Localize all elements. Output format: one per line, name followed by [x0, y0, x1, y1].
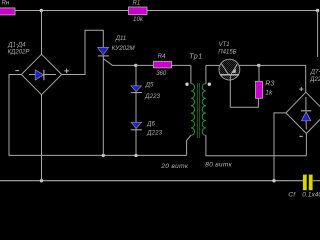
svg-text:Д1-Д4: Д1-Д4	[7, 42, 26, 48]
diode Д5 cathode bar	[131, 92, 142, 94]
svg-text:П415Б: П415Б	[218, 50, 236, 56]
svg-text:Сf: Сf	[288, 191, 296, 198]
wire base to R3 bottom	[230, 98, 258, 107]
diode line inside bridge 1	[29, 74, 56, 76]
svg-text:Тр1: Тр1	[189, 52, 203, 61]
wire bridge2 bottom vertex down	[305, 134, 307, 156]
wire secondary top lead	[205, 65, 207, 83]
svg-text:R1: R1	[133, 0, 141, 6]
VT1 emitter arrow	[232, 68, 236, 73]
wire bridge2 left vertex down	[274, 113, 286, 181]
Д11 cathode bar	[98, 55, 109, 57]
wire bridge1 minus out	[9, 75, 187, 156]
diode line inside bridge 2	[305, 97, 307, 110]
wire VT1 emitter to node	[239, 64, 306, 66]
wire node to R3	[258, 65, 260, 81]
svg-text:Д223: Д223	[146, 130, 162, 137]
diode Д6 cathode bar	[131, 129, 142, 131]
wire node to bridge2 top	[305, 65, 307, 92]
transformer core line 2	[198, 83, 200, 138]
diode Д5 triangle	[131, 86, 141, 92]
VT1 base bar	[220, 74, 239, 76]
bridge rectifier Д1-Д4 diamond	[21, 54, 61, 94]
wire top rail left	[15, 10, 129, 12]
node top right corner	[316, 9, 319, 12]
capacitor Сf plate 2	[309, 175, 313, 191]
wire secondary to VT1	[206, 64, 220, 66]
resistor R4	[154, 61, 172, 68]
svg-text:КД202Р: КД202Р	[8, 49, 30, 55]
label plus bridge2	[299, 88, 303, 90]
wire Д5 Д6 chain vertical	[135, 65, 137, 155]
label minus bridge1	[15, 70, 19, 72]
svg-text:0.1х40: 0.1х40	[302, 191, 320, 198]
wire R4 to winding	[172, 64, 191, 66]
wire primary top lead	[190, 65, 192, 83]
capacitor Сf plate 1	[303, 175, 307, 191]
wire primary bottom lead	[187, 135, 191, 155]
svg-text:10k: 10k	[133, 16, 144, 23]
wire Д11 cathode down	[102, 56, 104, 155]
diode cathode bar bridge 2	[301, 110, 311, 112]
wire node to R4	[136, 64, 154, 66]
wire bottom rail right of cap	[313, 180, 320, 182]
transistor VT1 circle	[219, 59, 240, 80]
winding 80 витк (right)	[202, 84, 206, 136]
transformer phasing dot right	[208, 83, 211, 86]
wire secondary bottom lead	[206, 135, 307, 156]
diode cathode bar bridge 1	[43, 70, 45, 80]
svg-text:Д223: Д223	[144, 93, 160, 100]
svg-text:R3: R3	[265, 81, 274, 88]
transformer phasing dot left	[185, 83, 188, 86]
node Д11 chain to rail	[102, 154, 105, 157]
svg-text:80 витк: 80 витк	[205, 161, 232, 168]
resistor Rн	[0, 8, 15, 15]
label minus bridge2	[299, 135, 302, 137]
label plus bridge1	[64, 70, 69, 72]
node bridge1 bottom to rail	[40, 179, 43, 182]
wire right edge drop	[317, 11, 319, 58]
diode lower line bridge 2	[305, 121, 307, 130]
svg-text:Д5: Д5	[145, 82, 154, 88]
VT1 collector line	[221, 64, 228, 75]
resistor R3	[256, 81, 263, 98]
svg-text:КУ202М: КУ202М	[112, 45, 136, 52]
resistor R1	[129, 7, 148, 15]
svg-text:Д6: Д6	[146, 122, 155, 128]
thyristor Д11 triangle	[98, 47, 109, 55]
svg-text:Rн: Rн	[2, 0, 10, 6]
node bridge2 to rail	[272, 179, 275, 182]
svg-text:20 витк: 20 витк	[160, 163, 189, 170]
svg-text:Д11: Д11	[115, 36, 126, 42]
svg-text:Д226: Д226	[309, 77, 320, 83]
diode triangle bridge 2	[301, 112, 310, 121]
wire top rail right	[147, 10, 318, 12]
wire bridge1 plus out	[62, 30, 104, 74]
node R4 branch	[134, 64, 137, 67]
node Д5-Д6 chain to rail	[134, 154, 137, 157]
wire bridge1 bottom lead	[41, 95, 43, 181]
VT1 emitter line	[231, 64, 237, 75]
transformer core line 1	[196, 83, 198, 138]
svg-text:360: 360	[156, 71, 167, 77]
winding 20 витк (left)	[191, 84, 195, 136]
svg-text:Д7-Д: Д7-Д	[310, 70, 320, 76]
svg-text:1k: 1k	[265, 90, 273, 97]
wire bottom rail	[0, 180, 303, 182]
diode Д6 triangle	[131, 122, 141, 128]
wire bridge1 top lead	[41, 11, 43, 55]
wire Д11 branch diagonal	[103, 59, 136, 66]
VT1 base lead	[229, 75, 231, 108]
svg-text:VT1: VT1	[219, 42, 230, 48]
bridge rectifier Д7-Д10 diamond	[286, 92, 320, 133]
diode triangle bridge 1	[35, 70, 43, 80]
node top rail / bridge 1	[40, 9, 43, 12]
svg-text:R4: R4	[158, 54, 166, 60]
node R3 top	[257, 64, 260, 67]
